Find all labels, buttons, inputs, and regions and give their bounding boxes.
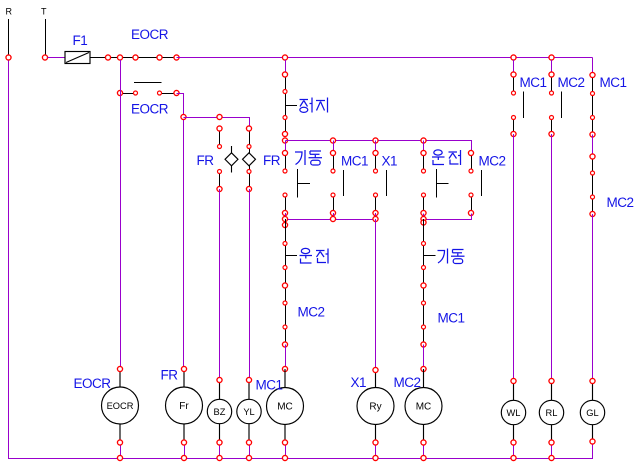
junction nodes start group bottom rail (282, 216, 287, 221)
junction nodes run group bottom rail (421, 216, 426, 221)
lamp YL (237, 380, 261, 443)
svg-text:FR: FR (161, 368, 179, 383)
node above YL (246, 377, 251, 382)
node R (6, 55, 11, 60)
wire between GL contacts (592, 135, 594, 157)
nodes EOCR NC contact (117, 90, 122, 95)
svg-text:MC1: MC1 (438, 311, 465, 326)
svg-text:MC1: MC1 (600, 75, 627, 90)
wire to BZ lamp (219, 189, 221, 380)
node above BZ (217, 377, 222, 382)
contact FR a-contact (open) left column (219, 129, 221, 190)
wire start group bottom rail (285, 219, 376, 221)
relay coil Ry (X1) (357, 370, 394, 443)
node above EOCR coil (117, 366, 122, 371)
svg-text:F1: F1 (73, 33, 88, 48)
svg-text:X1: X1 (382, 154, 398, 169)
contact MC1 a-contact self hold (334, 153, 344, 213)
node above MC2 coil (421, 366, 426, 371)
nodes X1 contact (373, 150, 378, 155)
contact FR b-contact (closed) right column (249, 129, 251, 190)
junction nodes start group rail (330, 138, 335, 143)
node above MC1 coil (282, 366, 287, 371)
svg-text:T: T (41, 7, 47, 17)
wire T phase lead (45, 19, 47, 55)
nodes FR left contact (217, 126, 222, 131)
contact X1 a-contact (376, 153, 387, 213)
label 기동 (295, 150, 322, 165)
node above RL (549, 378, 554, 383)
svg-text:FR: FR (197, 153, 215, 168)
svg-text:MC2: MC2 (394, 375, 421, 390)
svg-text:FR: FR (263, 153, 281, 168)
wire to YL lamp (249, 189, 251, 380)
wire stubs rail to contacts (286, 141, 424, 154)
lamp WL (501, 381, 525, 443)
wire to RL lamp (551, 134, 553, 381)
wire T to fuse (48, 57, 66, 59)
nodes MC1 contact (330, 150, 335, 155)
wire FR net drop right (249, 117, 251, 129)
node above GL (590, 378, 595, 383)
lamp RL (539, 381, 563, 443)
contact MC2 a-contact (RL branch) (552, 60, 562, 134)
nodes MC1 GL contact (590, 72, 595, 77)
wire stop-button feed (285, 60, 287, 75)
wire top rail corner down to GL branch (592, 58, 594, 76)
lamp GL (580, 381, 604, 442)
wire FR net horizontal (184, 117, 250, 119)
label 운전 upper (432, 150, 461, 165)
pushbutton 운전 NC + contact MC2 b-contact interlock chain (MC1 coil branch) (285, 219, 297, 345)
nodes on top rail black section (105, 55, 110, 60)
label 기동 lower (438, 249, 465, 264)
contactor coil MC1 (267, 369, 304, 443)
wire bottom rail and R phase down-run (9, 61, 593, 459)
svg-text:MC1: MC1 (341, 154, 368, 169)
pushbutton 기동 (start, NO) (286, 153, 311, 213)
junction nodes on top rail purple (282, 55, 287, 60)
svg-text:MC2: MC2 (298, 305, 325, 320)
contact MC1 b-contact closed (GL branch) (592, 75, 594, 135)
nodes MC2 coil branch chain (421, 283, 426, 288)
nodes MC1 coil branch chain (282, 283, 287, 288)
wire to GL lamp (592, 214, 594, 381)
svg-text:GL: GL (586, 408, 598, 418)
node FR net corner (181, 114, 186, 119)
svg-text:MC2: MC2 (558, 75, 585, 90)
svg-text:MC: MC (277, 402, 293, 413)
svg-text:MC1: MC1 (256, 378, 283, 393)
svg-text:MC2: MC2 (607, 195, 634, 210)
label 정지 (300, 98, 328, 113)
svg-text:MC2: MC2 (479, 154, 506, 169)
FR flicker symbol right diamond (243, 153, 256, 166)
wire top rail purple (177, 57, 593, 59)
svg-text:EOCR: EOCR (131, 102, 169, 117)
svg-text:EOCR: EOCR (131, 27, 169, 42)
contactor coil MC2 (405, 369, 442, 443)
svg-text:RL: RL (546, 408, 558, 418)
svg-text:MC: MC (416, 402, 432, 413)
nodes below coils (117, 440, 122, 445)
svg-text:Ry: Ry (369, 402, 381, 413)
relay coil Fr (166, 369, 203, 443)
contact EOCR b-contact (NC) row (120, 83, 177, 94)
svg-text:Fr: Fr (179, 401, 189, 412)
nodes FR right contact (246, 126, 251, 131)
wire X1 branch to Ry coil (375, 219, 377, 370)
svg-text:BZ: BZ (214, 407, 226, 417)
nodes MC1 WL contact (511, 72, 516, 77)
pushbutton 정지 (stop, NC) (285, 75, 297, 135)
wire R phase lead (8, 19, 10, 55)
wire vertical to Fr coil (183, 117, 185, 369)
junction nodes bottom rail (117, 455, 122, 460)
wire top rail black section (EOCR relay contact, closed) (90, 57, 177, 59)
wire to MC2 coil (423, 345, 425, 370)
svg-text:X1: X1 (351, 375, 367, 390)
wire start group top rail (286, 141, 472, 154)
node above Ry coil (373, 367, 378, 372)
svg-text:WL: WL (507, 408, 521, 418)
node above Fr coil (181, 366, 186, 371)
nodes start button (282, 150, 287, 155)
svg-text:MC1: MC1 (520, 75, 547, 90)
svg-text:YL: YL (243, 407, 254, 417)
svg-text:R: R (6, 7, 13, 17)
nodes MC2 contact (468, 150, 473, 155)
node above WL (511, 378, 516, 383)
pushbutton 운전 (run, NO) (424, 153, 449, 213)
wire to WL lamp (513, 134, 515, 381)
junction node FR net (217, 114, 222, 119)
nodes stop button (282, 72, 287, 77)
contact MC2 a-contact self hold (472, 153, 482, 213)
buzzer BZ (207, 380, 231, 443)
fuse F1 (65, 52, 90, 64)
contact MC1 a-contact (WL branch) (514, 60, 524, 134)
wire to MC1 coil (285, 345, 287, 370)
nodes MC2 RL contact (549, 72, 554, 77)
wire coil bottom stubs to rail (121, 443, 552, 459)
svg-text:EOCR: EOCR (74, 376, 112, 391)
FR flicker symbol left (line and diamond) (225, 146, 238, 173)
wire vertical to EOCR coil (120, 60, 122, 369)
pushbutton 기동 NC + contact MC1 b-contact interlock chain (MC2 coil branch) (424, 219, 436, 345)
contact MC2 b-contact closed (GL branch) (592, 157, 594, 215)
label 운전 lower (300, 248, 329, 263)
svg-text:EOCR: EOCR (107, 401, 134, 411)
wire run group bottom rail (424, 214, 472, 220)
wire stubs contacts to bottom rail (286, 213, 376, 219)
relay coil EOCR (102, 369, 139, 443)
nodes MC2 GL contact (590, 154, 595, 159)
wire EOCR NC to FR net (177, 94, 184, 118)
nodes run button (421, 150, 426, 155)
node T (42, 55, 47, 60)
